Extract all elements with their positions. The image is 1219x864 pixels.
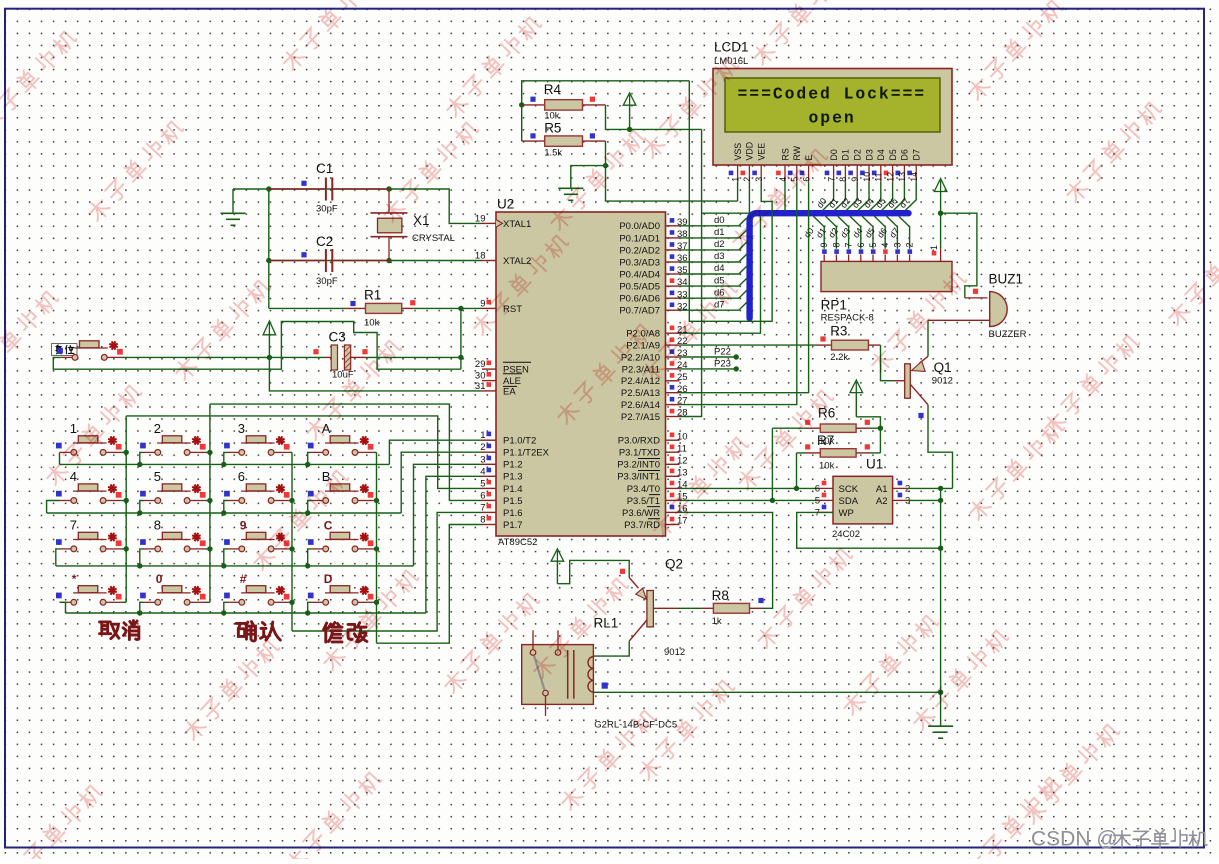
node junctions column 2 (207, 450, 212, 455)
wire P3.6 to R8 (680, 512, 773, 608)
push-button key 6 (224, 469, 289, 503)
U2 left pin stubs and names (482, 219, 550, 531)
resistor R4 10k (522, 82, 595, 122)
wire VCC to EA pin 31 (269, 357, 482, 391)
svg-text:13: 13 (677, 467, 688, 478)
svg-text:7: 7 (70, 517, 77, 532)
svg-text:D7: D7 (912, 149, 922, 160)
svg-text:P23: P23 (714, 358, 731, 369)
push-button key 3 (224, 421, 289, 455)
wire keypad column 4 (376, 452, 378, 643)
svg-text:1: 1 (730, 177, 740, 182)
wire keypad column 3 (291, 452, 293, 631)
svg-text:9: 9 (819, 243, 829, 248)
svg-text:5: 5 (154, 469, 161, 484)
svg-text:P3.4/T0: P3.4/T0 (627, 484, 660, 495)
caption 取消 cancel (100, 622, 119, 639)
wire VCC to R6 R7 junction (856, 417, 880, 453)
push-button key 8 (140, 517, 205, 551)
wire key # right terminal to column (290, 601, 293, 603)
relay coil state square (602, 683, 608, 689)
svg-text:#: # (240, 572, 247, 586)
svg-text:24C02: 24C02 (832, 529, 860, 540)
bus data d0-d7 blue (750, 213, 909, 318)
push-button key B (308, 469, 374, 503)
svg-text:open: open (809, 109, 856, 128)
svg-text:R7: R7 (817, 433, 834, 448)
svg-text:EA: EA (503, 386, 516, 397)
svg-text:SCK: SCK (839, 484, 859, 495)
svg-text:D2: D2 (853, 149, 863, 160)
svg-text:d0: d0 (714, 215, 725, 226)
LCD1 pin names rotated (733, 142, 922, 161)
node junctions column 4 (374, 498, 379, 503)
wire P1.5 feeder to column 2 (210, 404, 482, 500)
svg-text:2.2k: 2.2k (830, 352, 848, 363)
wire keypad row net 1 (60, 463, 390, 465)
node junction row1 col4 (305, 462, 310, 467)
node junction ground R5 (603, 163, 608, 168)
svg-text:P1.2: P1.2 (503, 460, 523, 471)
wire Q2 collector to relay coil (593, 641, 629, 656)
node junction SCK R7 (794, 486, 799, 491)
svg-text:4: 4 (880, 243, 890, 248)
caption 修改 modify (324, 623, 342, 642)
node junction crystal top (386, 186, 391, 191)
svg-text:D0: D0 (829, 149, 839, 160)
svg-text:P1.7: P1.7 (503, 520, 523, 531)
LCD1 pin stubs (738, 165, 917, 182)
wire P1.0 to keypad row1 (389, 440, 482, 464)
LCD1 pin numbers and state squares (729, 171, 919, 182)
wire E LCD pin6 to P2.5 (680, 182, 809, 393)
wire key 9 left terminal drop (224, 549, 228, 566)
wire key D left terminal drop (308, 602, 312, 613)
net label 复位 reset (52, 344, 78, 356)
resistor pack RP1 RESPACK-8 body (821, 261, 952, 291)
wire VSS LCD pin1 (737, 182, 739, 201)
svg-text:3: 3 (238, 421, 245, 436)
svg-text:8: 8 (838, 177, 848, 182)
svg-text:Q2: Q2 (665, 557, 683, 572)
svg-text:1k: 1k (712, 616, 722, 627)
push-button key 7 (56, 517, 122, 551)
svg-text:14: 14 (909, 172, 919, 182)
svg-text:P0.4/AD4: P0.4/AD4 (619, 269, 660, 280)
wire key 6 left terminal drop (224, 501, 228, 514)
svg-text:7: 7 (844, 243, 854, 248)
resistor R6 10k (772, 406, 880, 433)
svg-text:P1.0/T2: P1.0/T2 (503, 436, 536, 447)
svg-text:4: 4 (70, 469, 77, 484)
wire gnd vertical C1-C2-R1 (268, 189, 270, 308)
svg-text:U1: U1 (866, 457, 883, 472)
node junction row4 col4 (305, 610, 310, 615)
push-button key 0 (140, 572, 205, 605)
caption 确认 confirm (236, 622, 255, 641)
svg-text:RS: RS (780, 148, 790, 160)
node junction RST row (458, 306, 463, 311)
wire key # left terminal drop (224, 602, 228, 613)
svg-text:11: 11 (874, 172, 884, 181)
svg-text:5: 5 (868, 243, 878, 248)
svg-text:R1: R1 (364, 288, 381, 303)
svg-text:A2: A2 (876, 496, 888, 507)
wire key 2 right terminal to column (206, 451, 210, 453)
power VCC arrow R6 R7 (850, 380, 863, 393)
wire key B left terminal drop (308, 501, 312, 514)
wire key 1 right terminal to column (122, 451, 127, 453)
node junction row1 col2 (137, 462, 142, 467)
wire key 5 left terminal drop (140, 501, 144, 514)
svg-text:P0.2/AD2: P0.2/AD2 (619, 245, 660, 256)
wire P2.0 to bus (680, 216, 761, 333)
wire key 9 right terminal to column (290, 548, 293, 550)
wire R7 left to SCK net (796, 453, 798, 489)
node junction row3 col2 (137, 563, 142, 568)
svg-text:SDA: SDA (839, 496, 859, 507)
power VCC arrow reset (263, 321, 276, 335)
wire VEE top rail (522, 81, 690, 141)
svg-text:R3: R3 (830, 324, 847, 339)
svg-text:P1.4: P1.4 (503, 484, 523, 495)
wire reset button right to VCC node (122, 356, 270, 358)
svg-text:P3.1/TXD: P3.1/TXD (619, 448, 660, 459)
svg-text:C2: C2 (316, 234, 333, 249)
svg-text:1.5k: 1.5k (544, 148, 562, 159)
resistor R1 10k (269, 288, 482, 329)
wire P3.5 to U1 SDA (680, 499, 819, 501)
svg-text:9012: 9012 (664, 647, 685, 658)
node junction row3 col4 (305, 563, 310, 568)
push-button key 4 (56, 469, 122, 503)
svg-text:P0.7/AD7: P0.7/AD7 (619, 306, 660, 317)
svg-text:P1.1/T2EX: P1.1/T2EX (503, 448, 550, 459)
svg-text:8: 8 (831, 243, 841, 248)
node junction SDA R6 (770, 498, 775, 503)
svg-text:P22: P22 (714, 347, 731, 358)
wire key A right terminal to column (373, 451, 376, 453)
node junction C1 left (266, 186, 271, 191)
svg-text:P2.7/A15: P2.7/A15 (621, 412, 660, 423)
wire P2.2 net label P22 (680, 356, 737, 358)
node junction VCC rail (627, 127, 632, 132)
svg-text:U2: U2 (497, 197, 514, 212)
wire P1.4 feeder to column 1 (126, 416, 482, 489)
svg-text:P3.5/T1: P3.5/T1 (627, 496, 660, 507)
LCD1 LM016L body (713, 69, 952, 166)
svg-text:LCD1: LCD1 (714, 39, 749, 54)
svg-text:RL1: RL1 (594, 616, 619, 631)
U2 XTAL1 clock input arrow (496, 220, 503, 228)
buzzer BUZ1 body (965, 297, 988, 299)
svg-text:AT89C52: AT89C52 (498, 537, 537, 548)
svg-text:17: 17 (677, 516, 688, 527)
ground symbol bottom right (928, 725, 953, 727)
push-button key 5 (140, 469, 205, 503)
svg-text:P0.3/AD3: P0.3/AD3 (619, 257, 660, 268)
node junction ground bottom (938, 690, 943, 695)
svg-text:C: C (324, 518, 333, 532)
node junction C3 right (458, 355, 463, 360)
wire key 7 left terminal to row net (56, 549, 60, 566)
resistor R3 2.2k (820, 324, 868, 364)
wire key 2 left terminal drop (140, 452, 144, 464)
wire RW LCD pin5 to P2.6 (680, 182, 797, 405)
wire ground rail to XTAL1 net (233, 189, 482, 223)
wire reset button left loop to RST (53, 322, 461, 370)
svg-text:9: 9 (240, 518, 247, 532)
IC U1 24C02 body (833, 476, 893, 524)
svg-text:===Coded Lock===: ===Coded Lock=== (738, 85, 927, 104)
node junction A2 (938, 498, 943, 503)
capacitor C3 10uF electrolytic (269, 330, 461, 381)
svg-text:D5: D5 (888, 149, 898, 160)
wire U1 A1 to collector net (907, 487, 952, 489)
wire P1.6 loop to column 3 (292, 512, 482, 631)
svg-text:5: 5 (815, 496, 820, 507)
wire key B right terminal to column (373, 500, 376, 502)
transistor Q2 9012 PNP (629, 578, 653, 642)
node junction row4 col2 (137, 610, 142, 615)
RP1 pins from bus with rotated net labels d0-d7 (802, 216, 915, 261)
U1 pin stubs numbers and names (815, 481, 911, 519)
svg-text:d1: d1 (714, 227, 725, 238)
svg-text:d3: d3 (714, 251, 725, 262)
wire keypad column 1 (125, 416, 127, 602)
wires P0.0-P0.7 to bus with net labels d0-d7 (680, 215, 747, 310)
wire P1.3 to keypad row4 (426, 476, 482, 613)
svg-text:P1.5: P1.5 (503, 496, 523, 507)
svg-text:2: 2 (905, 243, 915, 248)
node junction A1 (938, 486, 943, 491)
wire key 7 right terminal to column (122, 548, 127, 550)
node junction VCC reset (267, 355, 272, 360)
wire ground branch (571, 166, 606, 189)
svg-text:P0.1/AD1: P0.1/AD1 (619, 233, 660, 244)
wire key C right terminal to column (373, 548, 376, 550)
node junction row2 col3 (221, 510, 226, 515)
svg-text:P1.6: P1.6 (503, 508, 523, 519)
svg-text:6: 6 (238, 469, 245, 484)
svg-text:12: 12 (677, 455, 688, 466)
svg-text:10k: 10k (819, 461, 835, 472)
wire VCC to buzzer (941, 213, 977, 298)
power VCC arrow RP1 (934, 179, 947, 192)
capacitor C2 (269, 234, 390, 287)
svg-text:d2: d2 (714, 239, 725, 250)
wire key 4 left terminal to row net (47, 501, 60, 514)
wire R5 right to ground and VSS (583, 140, 606, 142)
node junction row3 col3 (221, 563, 226, 568)
wire to ground symbol bottom right (940, 692, 942, 726)
RP1 pin 1 common (940, 213, 942, 249)
svg-text:10: 10 (862, 172, 872, 182)
svg-text:3: 3 (754, 177, 764, 182)
svg-text:10uF: 10uF (332, 370, 354, 381)
Q2 emitter state square (620, 569, 625, 574)
wire keypad row net 3 (56, 565, 414, 567)
wire relay coil to ground (593, 691, 940, 693)
wire P1.2 to keypad row3 (414, 464, 483, 566)
svg-text:P3.2/INT0: P3.2/INT0 (617, 460, 660, 471)
svg-text:9: 9 (850, 177, 860, 182)
svg-text:P3.3/INT1: P3.3/INT1 (617, 472, 660, 483)
wire key 1 left terminal to row net (59, 452, 61, 464)
push-button key C (308, 518, 374, 551)
U2 right pin name overlines INT0 INT1 T1 WR RD (638, 459, 660, 519)
svg-text:0: 0 (156, 572, 163, 586)
wire R8 to Q2 base (678, 607, 702, 609)
node junction row2 col2 (137, 510, 142, 515)
svg-text:P2.5/A13: P2.5/A13 (621, 388, 660, 399)
wire C2 row (269, 260, 482, 262)
svg-text:8: 8 (154, 517, 161, 532)
wire key 0 right terminal to column (206, 601, 210, 603)
svg-text:XTAL1: XTAL1 (503, 219, 531, 230)
node junction R6 right (878, 426, 883, 431)
svg-text:RW: RW (792, 145, 802, 160)
wire P1.7 loop to column 4 (377, 525, 483, 644)
RL1 contacts and blade (530, 650, 536, 656)
wire P3.4 to U1 SCK (680, 487, 819, 489)
RL1 core bars (567, 650, 569, 699)
svg-text:P2.6/A14: P2.6/A14 (621, 400, 660, 411)
svg-text:P2.4/A12: P2.4/A12 (621, 376, 660, 387)
wire key C left terminal drop (308, 549, 312, 566)
svg-text:30pF: 30pF (316, 204, 338, 215)
wire P1.1 to keypad row2 (401, 452, 482, 513)
wire U1 A2 to ground net (907, 499, 940, 501)
capacitor C1 (269, 161, 390, 215)
relay RL1 body (522, 645, 594, 705)
svg-text:R4: R4 (544, 82, 562, 97)
svg-text:VEE: VEE (757, 143, 767, 161)
wire key 4 right terminal to column (122, 500, 127, 502)
svg-text:P0.0/AD0: P0.0/AD0 (619, 221, 660, 232)
node junction row2 col4 (305, 510, 310, 515)
svg-text:BUZ1: BUZ1 (989, 272, 1024, 287)
wires LCD D0-D7 to bus with rotated net labels (815, 182, 917, 211)
svg-text:10k: 10k (364, 318, 380, 329)
wire key 0 left terminal drop (140, 602, 144, 613)
svg-text:1: 1 (929, 245, 939, 250)
wire R6 left to SDA net (771, 428, 773, 500)
wire R3 to Q1 base (868, 344, 880, 346)
svg-text:P3.6/WR: P3.6/WR (622, 508, 660, 519)
svg-text:P3.0/RXD: P3.0/RXD (618, 436, 660, 447)
power VCC arrow R4 (623, 93, 636, 105)
wire key A left terminal drop (308, 452, 312, 464)
svg-text:RESPACK-8: RESPACK-8 (821, 313, 874, 324)
svg-text:D6: D6 (900, 149, 910, 160)
wire key D right terminal to column (373, 601, 376, 603)
svg-text:6: 6 (856, 243, 866, 248)
wire keypad row net 4 (66, 612, 426, 614)
transistor Q1 9012 PNP (905, 356, 928, 404)
wire key 3 right terminal to column (290, 451, 293, 453)
push-button key D (308, 572, 374, 605)
push-button key A (308, 421, 374, 455)
ground symbol top-left (232, 189, 234, 213)
svg-text:R5: R5 (544, 121, 561, 136)
U2 pin numbers left side (475, 213, 491, 525)
svg-text:3: 3 (892, 243, 902, 248)
U2 left pin overlines PSEN ALE EA (503, 362, 531, 386)
node junctions column 3 (289, 498, 294, 503)
svg-text:R8: R8 (712, 588, 729, 603)
wire key 3 left terminal drop (224, 452, 228, 464)
wire key * left terminal to row net (60, 602, 66, 613)
svg-text:X1: X1 (413, 213, 430, 228)
svg-text:29: 29 (475, 359, 486, 370)
node junction VCC RP1 (938, 211, 943, 216)
op-amp U2 microcontroller AT89C52 body (496, 212, 666, 536)
svg-text:LM016L: LM016L (714, 56, 748, 67)
resistor R7 10k (797, 444, 881, 471)
wire VDD tee to pin2 (702, 212, 750, 214)
svg-text:D1: D1 (841, 149, 851, 160)
push-button key # (224, 572, 289, 605)
Q1 collector state square (918, 413, 923, 418)
svg-text:WP: WP (839, 508, 854, 519)
svg-text:RP1: RP1 (821, 298, 847, 313)
svg-text:12: 12 (885, 172, 895, 182)
svg-text:P1.3: P1.3 (503, 472, 523, 483)
push-button key 1 (56, 421, 122, 455)
U2 pin numbers right side (670, 217, 688, 527)
svg-text:d4: d4 (714, 263, 725, 274)
wire VCC to Q2 emitter (557, 560, 629, 583)
svg-text:C3: C3 (329, 330, 346, 345)
wire buzzer to Q1 emitter (927, 320, 929, 356)
svg-text:VDD: VDD (745, 142, 755, 161)
LCD1 screen (725, 78, 940, 132)
svg-text:A1: A1 (876, 484, 888, 495)
push-button reset 复位 (57, 341, 123, 361)
wire ground vertical right (940, 488, 942, 692)
svg-text:D3: D3 (864, 149, 874, 160)
resistor R5 1.5k (522, 121, 595, 159)
svg-text:*: * (72, 572, 77, 586)
node junction row4 col3 (221, 610, 226, 615)
wire keypad row net 2 (47, 512, 402, 514)
svg-text:2: 2 (742, 177, 752, 182)
svg-text:13: 13 (897, 172, 907, 182)
node junction R4 left (519, 102, 524, 107)
U2 right pin stubs and names (617, 221, 679, 531)
power VCC arrow Q2 (551, 549, 564, 561)
svg-text:Q1: Q1 (934, 360, 952, 375)
RL1 coil (588, 657, 593, 693)
node junction crystal bottom (386, 258, 391, 263)
wire key 5 right terminal to column (206, 500, 210, 502)
svg-text:7: 7 (826, 177, 836, 182)
svg-text:C1: C1 (316, 161, 333, 176)
svg-text:D4: D4 (876, 149, 886, 160)
wire key 8 left terminal drop (140, 549, 144, 566)
wire key * right terminal to column (122, 601, 127, 603)
svg-text:9012: 9012 (932, 376, 953, 387)
wire Q1 collector down (928, 405, 953, 489)
svg-text:2: 2 (154, 421, 161, 436)
svg-text:6: 6 (815, 484, 820, 495)
svg-text:VSS: VSS (733, 143, 743, 161)
resistor R8 1k (712, 588, 764, 627)
push-button key 9 (224, 518, 289, 551)
svg-text:D: D (324, 572, 333, 586)
wire key 6 right terminal to column (290, 500, 293, 502)
